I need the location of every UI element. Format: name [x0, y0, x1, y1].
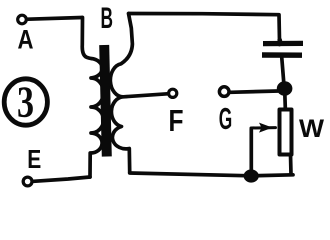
transformer core — [104, 45, 107, 157]
potentiometer wiper arm — [251, 126, 276, 129]
terminal A — [18, 15, 27, 24]
svg-text:E: E — [27, 144, 41, 174]
svg-text:W: W — [299, 115, 324, 143]
wire A to transformer primary top — [28, 18, 82, 20]
potentiometer wiper arrowhead — [259, 123, 273, 133]
capacitor C top plate — [263, 41, 303, 46]
wire junction to potentiometer top — [283, 93, 287, 108]
wire capacitor bottom to junction — [282, 58, 284, 83]
svg-text:A: A — [18, 25, 34, 55]
svg-text:F: F — [169, 103, 184, 138]
figure number circle — [4, 79, 47, 125]
capacitor top stub — [280, 39, 282, 46]
transformer primary winding — [82, 18, 103, 178]
bottom rail wire — [130, 173, 293, 176]
wire secondary top to capacitor — [129, 14, 280, 42]
junction dot capacitor/G/potentiometer — [277, 81, 293, 95]
terminal G — [219, 87, 229, 97]
wire E to transformer primary bottom — [34, 177, 90, 181]
junction dot bottom rail/wiper — [244, 169, 259, 182]
transformer secondary winding — [110, 14, 132, 173]
terminal F — [169, 89, 177, 97]
wire G to junction — [231, 91, 279, 92]
wire F tap — [124, 94, 168, 97]
capacitor C bottom plate — [262, 52, 302, 58]
wire potentiometer bottom to bottom rail — [289, 155, 293, 175]
svg-text:3: 3 — [17, 78, 34, 127]
potentiometer W body — [280, 110, 292, 155]
wire wiper to bottom junction — [249, 129, 253, 172]
svg-text:G: G — [219, 101, 233, 136]
terminal E — [23, 177, 32, 186]
svg-text:B: B — [101, 2, 114, 35]
